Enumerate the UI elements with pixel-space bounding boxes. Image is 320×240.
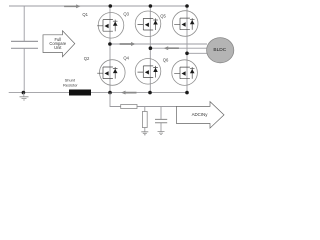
transistor Q6 — [172, 60, 198, 86]
current flow arrow bottom bus (left) — [121, 91, 137, 95]
junction dot bottom bus leg2 — [148, 91, 152, 95]
ADCINy block — [177, 102, 225, 129]
transistor Q2 — [97, 60, 125, 86]
capacitor C1 DC bus — [11, 41, 38, 48]
capacitor C2 filter — [160, 107, 162, 132]
svg-text:Q5: Q5 — [160, 13, 166, 18]
junction dot top bus leg3 — [185, 4, 189, 8]
current flow arrow phase B (left) — [164, 46, 179, 50]
current flow arrow phase A — [120, 42, 136, 46]
resistor R2 vertical — [144, 107, 146, 132]
wire top DC bus — [9, 5, 189, 7]
ground left — [20, 97, 29, 100]
wire leg 3 vertical — [186, 6, 188, 93]
svg-text:ADCINy: ADCINy — [192, 112, 209, 117]
svg-text:Q6: Q6 — [163, 57, 169, 62]
junction dot bottom bus left ground — [22, 91, 26, 95]
ground below R2 — [141, 132, 148, 135]
shunt resistor — [69, 90, 91, 96]
wire phase A — [110, 43, 207, 45]
junction dot phase A node — [108, 42, 112, 46]
svg-text:Q1: Q1 — [82, 12, 88, 17]
wire leg 2 vertical — [149, 6, 151, 93]
junction dot phase B node — [149, 46, 153, 50]
svg-text:Q2: Q2 — [84, 56, 90, 61]
wire phase B — [150, 47, 206, 49]
transistor Q4 — [135, 59, 161, 85]
ground below C2 — [158, 132, 165, 135]
junction dot bottom bus leg1 — [108, 91, 112, 95]
svg-text:Q3: Q3 — [123, 12, 129, 17]
wire bottom DC return bus — [9, 92, 187, 94]
junction dot top bus leg2 — [149, 4, 153, 8]
wire leg 1 vertical — [109, 6, 111, 93]
wire phase C — [187, 52, 207, 54]
wire left rail lower segment — [23, 48, 25, 92]
svg-text:Q4: Q4 — [123, 56, 129, 61]
transistor Q5 — [172, 11, 198, 37]
svg-text:BLDC: BLDC — [213, 47, 226, 53]
junction dot bottom bus leg3 — [185, 91, 189, 95]
wire left rail upper segment — [23, 6, 25, 41]
svg-text:Unit: Unit — [54, 45, 62, 50]
transistor Q1 — [97, 13, 124, 39]
svg-text:Resistor: Resistor — [63, 83, 78, 88]
full compare unit block — [43, 31, 75, 57]
transistor Q3 — [135, 11, 161, 37]
current flow arrow top bus — [64, 4, 81, 8]
wire sense tap — [110, 93, 177, 107]
resistor R1 horizontal sense — [121, 105, 137, 109]
BLDC motor — [207, 38, 234, 63]
junction dot phase C node — [185, 52, 189, 56]
junction dot top bus leg1 — [109, 4, 113, 8]
